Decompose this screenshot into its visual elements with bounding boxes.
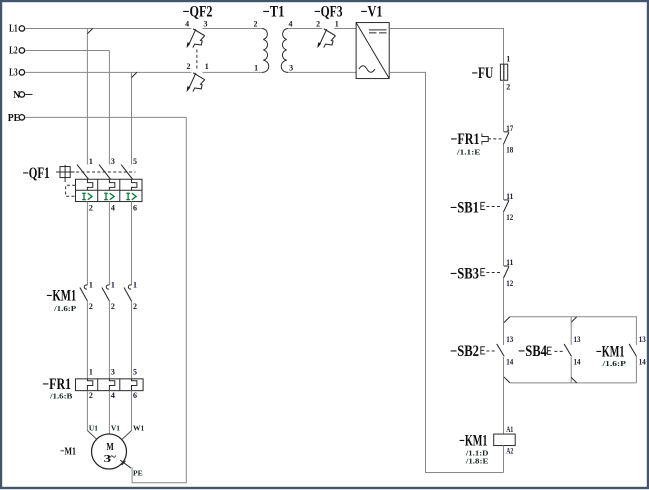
breaker QF1 blade 3 (121, 165, 133, 180)
svg-text:12: 12 (506, 279, 513, 288)
svg-text:6: 6 (133, 203, 137, 212)
motor M1 (92, 434, 127, 469)
fuse FU (500, 64, 507, 80)
breaker QF1 I> symbol 1 (82, 193, 92, 200)
overload FR1 pins bottom (89, 391, 137, 400)
breaker QF1 blade 1 (77, 165, 89, 180)
svg-text:A1: A1 (506, 425, 513, 434)
svg-text:5: 5 (133, 157, 137, 166)
contactor KM1 pole 3 (124, 285, 132, 301)
junction tick L3 (132, 72, 138, 78)
svg-text:12: 12 (506, 213, 513, 222)
wire SB1 to SB3 (503, 212, 505, 266)
rectifier V1 (356, 23, 389, 79)
svg-text:1: 1 (89, 157, 93, 166)
svg-text:~: ~ (110, 451, 116, 463)
breaker QF1 release hook 1 (87, 179, 92, 190)
svg-text:2: 2 (89, 302, 93, 311)
breaker QF1 pins bottom (89, 203, 137, 212)
svg-text:−M1: −M1 (60, 446, 76, 458)
branch line top (510, 317, 637, 345)
pushbutton SB4 pins (574, 335, 581, 366)
svg-text:−FR1: −FR1 (451, 131, 480, 148)
transformer T1 secondary winding (281, 28, 288, 72)
svg-text:2: 2 (316, 20, 320, 29)
wire QF2 to T1 primary bottom (203, 71, 263, 73)
breaker QF1 release hook 3 (132, 179, 137, 190)
contactor KM1 main label (46, 287, 76, 312)
svg-text:PE: PE (8, 112, 20, 124)
wire FU to FR1 (503, 80, 505, 132)
coil KM1 pins (506, 425, 513, 456)
transformer T1 pins (254, 20, 294, 73)
svg-text:−FU: −FU (472, 65, 494, 82)
pushbutton SB2 actuator (481, 347, 485, 354)
svg-text:1: 1 (89, 281, 93, 290)
contact KM1 aux pins (639, 335, 646, 366)
node L3 (9, 67, 24, 79)
svg-text:1: 1 (205, 62, 209, 71)
wire phase1 KM1 to FR1 (86, 301, 88, 379)
pushbutton SB3 actuator (481, 268, 485, 275)
breaker QF1 I> symbol 2 (104, 193, 114, 200)
svg-text:5: 5 (133, 368, 137, 377)
wire SB2 to junction (503, 357, 505, 434)
pushbutton SB1 NC (503, 200, 509, 212)
wire phase3 QF1 to KM1 (131, 202, 133, 285)
svg-text:2: 2 (89, 391, 93, 400)
wire phase2 drop (108, 50, 110, 164)
wire V1 lead (108, 391, 110, 434)
svg-text:14: 14 (574, 357, 581, 366)
breaker QF1 release hook 2 (109, 179, 114, 190)
svg-text:/1.6:P: /1.6:P (53, 304, 77, 313)
overload FR1 element 3 (132, 379, 137, 391)
contactor KM1 pole 1 pins (89, 281, 93, 312)
breaker QF1 linkage (76, 171, 135, 173)
pushbutton SB2 pins (506, 335, 513, 366)
breaker QF1 actuator (56, 165, 74, 182)
node N (13, 89, 32, 101)
svg-text:−QF2: −QF2 (183, 3, 213, 20)
svg-text:−KM1: −KM1 (596, 343, 625, 360)
overload FR1 element 1 (87, 379, 92, 391)
breaker QF1 pins top (89, 157, 137, 166)
svg-text:2: 2 (111, 302, 115, 311)
wire PE drop (132, 117, 186, 482)
pushbutton SB3 linkage (486, 272, 502, 274)
breaker QF3 (317, 29, 335, 48)
svg-text:−KM1: −KM1 (459, 432, 488, 449)
pushbutton SB4 actuator (547, 347, 551, 354)
wire phase3 drop (131, 72, 133, 164)
branch line bottom (510, 382, 637, 384)
wire SB3 to SB2 (503, 278, 505, 345)
node L1 (9, 23, 24, 35)
svg-text:3: 3 (289, 64, 293, 73)
svg-text:−T1: −T1 (263, 3, 285, 20)
svg-text:−SB4: −SB4 (518, 343, 547, 360)
wire QF3 to V1 (334, 27, 356, 29)
svg-text:2: 2 (89, 203, 93, 212)
svg-text:−SB1: −SB1 (450, 199, 479, 216)
svg-text:1: 1 (506, 55, 510, 64)
breaker QF1 actuator link (66, 185, 76, 196)
svg-text:−SB2: −SB2 (450, 343, 479, 360)
svg-text:6: 6 (133, 391, 137, 400)
contact FR1 label (451, 131, 481, 157)
contactor KM1 pole 3 pins (133, 281, 137, 312)
svg-text:3: 3 (111, 368, 115, 377)
breaker QF2 pole 2 (187, 73, 205, 93)
svg-text:−KM1: −KM1 (46, 287, 76, 304)
svg-text:14: 14 (506, 357, 513, 366)
junction chamfer main bottom (504, 377, 510, 383)
contact KM1 aux NO (629, 344, 636, 356)
contact FR1 pins (506, 124, 513, 155)
overload FR1 pins top (89, 368, 137, 377)
pushbutton SB4 linkage (554, 350, 563, 352)
wire SB4 bottom (570, 357, 572, 383)
svg-text:2: 2 (187, 62, 191, 71)
svg-text:U1: U1 (89, 424, 98, 433)
breaker QF1 box (76, 179, 143, 201)
svg-text:−V1: −V1 (361, 3, 383, 20)
svg-text:18: 18 (506, 145, 513, 154)
transformer T1 primary winding (262, 28, 269, 72)
svg-text:4: 4 (111, 203, 115, 212)
svg-text:1: 1 (89, 368, 93, 377)
wire KM1 aux bottom (635, 356, 637, 383)
pushbutton SB2 linkage (486, 350, 496, 352)
svg-text:−QF1: −QF1 (23, 165, 50, 182)
pushbutton SB4 NO (564, 344, 571, 356)
svg-text:13: 13 (639, 335, 646, 344)
wire V1 plus output (389, 28, 503, 64)
contactor KM1 pole 2 (102, 285, 110, 301)
coil KM1 label (459, 432, 489, 465)
contactor KM1 pole 1 (80, 285, 88, 301)
wire phase2 KM1 to FR1 (108, 301, 110, 379)
overload FR1 label (42, 376, 72, 400)
overload FR1 box (76, 379, 144, 391)
breaker QF2 pole 2 pins (187, 62, 209, 71)
contact FR1 linkage (488, 138, 502, 140)
overload FR1 element 2 (109, 379, 114, 391)
svg-text:L2: L2 (9, 45, 18, 57)
wire L2 (25, 49, 109, 51)
wire W1 lead (131, 391, 133, 431)
node PE (8, 112, 25, 124)
contactor KM1 pole 2 pins (111, 281, 115, 312)
svg-text:PE: PE (133, 469, 143, 478)
wire QF2 to T1 (203, 27, 263, 29)
contact FR1 thermal symbol (482, 134, 488, 145)
svg-text:W1: W1 (133, 424, 145, 433)
svg-text:V1: V1 (111, 424, 120, 433)
breaker QF1 I> symbol 3 (126, 193, 136, 200)
wire FR1 to SB1 (503, 145, 505, 200)
svg-text:2: 2 (506, 83, 510, 92)
wire phase2 QF1 to KM1 (108, 202, 110, 285)
svg-text:2: 2 (133, 302, 137, 311)
pushbutton SB1 actuator (481, 202, 485, 209)
breaker QF1 blade 2 (99, 165, 111, 180)
wire T1 secondary bottom to V1 (288, 71, 356, 73)
svg-text:2: 2 (254, 20, 258, 29)
svg-text:4: 4 (185, 20, 189, 29)
svg-text:4: 4 (111, 391, 115, 400)
svg-text:3: 3 (204, 20, 208, 29)
wire SB4 branch top (570, 317, 572, 345)
junction chamfer SB4 top (571, 317, 577, 323)
junction chamfer SB4 bottom (571, 377, 577, 383)
junction chamfer main top (504, 317, 510, 323)
svg-text:14: 14 (639, 357, 646, 366)
svg-text:1: 1 (111, 281, 115, 290)
breaker QF2 pole 1 pins (185, 20, 207, 29)
svg-text:1: 1 (335, 20, 339, 29)
pushbutton SB3 NC (503, 266, 509, 278)
svg-text:−QF3: −QF3 (314, 3, 343, 20)
wire V1 minus output (389, 72, 503, 472)
wire T1 secondary top to QF3 (288, 27, 322, 29)
pushbutton SB3 pins (506, 258, 513, 288)
svg-text:3: 3 (111, 157, 115, 166)
contact KM1 aux label (596, 343, 627, 368)
wire PE horizontal (25, 116, 186, 118)
pushbutton SB2 NO (497, 344, 504, 356)
svg-text:L1: L1 (9, 23, 18, 35)
svg-text:/1.6:B: /1.6:B (49, 392, 72, 401)
contact FR1 NC (503, 132, 509, 145)
svg-text:13: 13 (574, 335, 581, 344)
fuse FU pins (506, 55, 510, 92)
pushbutton SB1 linkage (486, 205, 502, 207)
motor terminal labels (89, 424, 145, 433)
motor PE blade (120, 460, 131, 468)
pushbutton SB1 pins (506, 192, 513, 222)
coil KM1 (494, 434, 516, 446)
breaker QF3 pins (316, 20, 339, 29)
svg-text:/1.6:P: /1.6:P (601, 359, 626, 368)
wire coil KM1 down (503, 446, 505, 473)
wire U1 lead (86, 391, 88, 431)
junction tick L1 (87, 28, 93, 34)
node L2 (9, 45, 24, 57)
svg-text:A2: A2 (506, 447, 513, 456)
wire L3 to QF2 lower pole (25, 71, 191, 73)
svg-text:/1.1:E: /1.1:E (456, 148, 481, 157)
svg-text:4: 4 (289, 20, 293, 29)
wire phase1 drop (86, 28, 88, 164)
svg-text:1: 1 (254, 64, 258, 73)
wire phase3 KM1 to FR1 (131, 301, 133, 379)
wire L1 to QF2 (25, 27, 191, 29)
svg-text:1: 1 (133, 281, 137, 290)
breaker QF2 linkage (196, 50, 198, 71)
svg-text:L3: L3 (9, 67, 18, 79)
breaker QF2 pole 1 (187, 29, 205, 48)
svg-text:−SB3: −SB3 (450, 265, 479, 282)
svg-text:/1.8:E: /1.8:E (465, 456, 489, 465)
wire phase1 QF1 to KM1 (86, 202, 88, 285)
svg-text:13: 13 (506, 335, 513, 344)
